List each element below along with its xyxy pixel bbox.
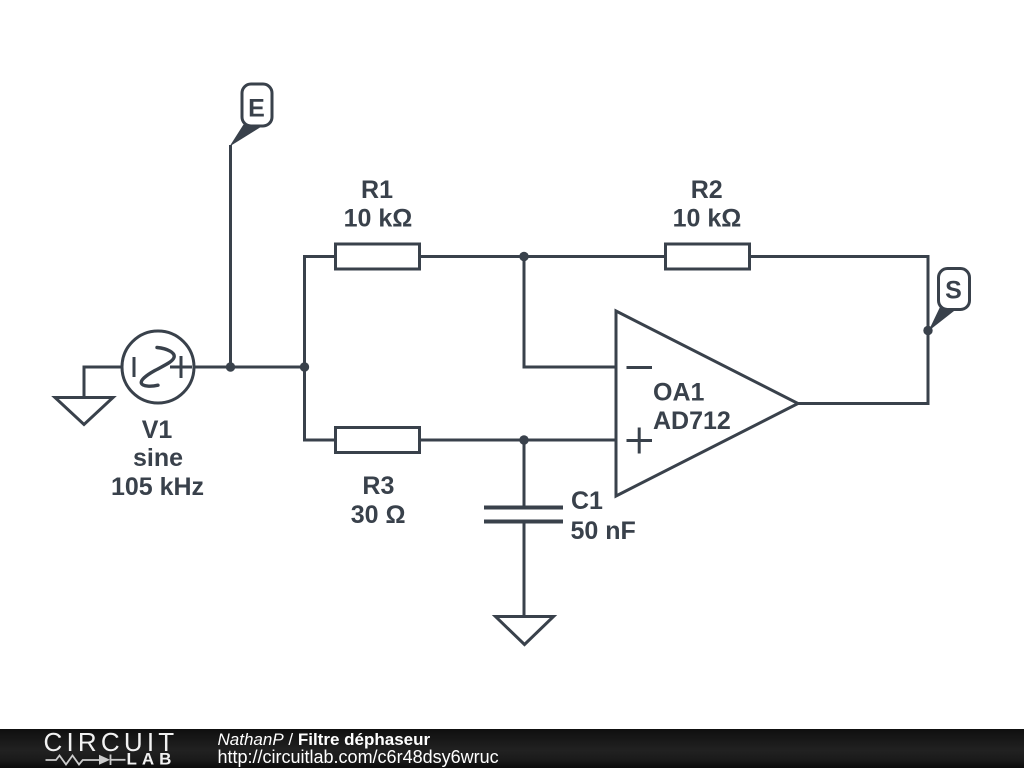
node junction C1 tap: [519, 435, 528, 444]
wire R3 to op-amp plus: [420, 439, 617, 442]
C1 label: [571, 487, 636, 545]
wire inverting vertical: [523, 257, 526, 368]
wire C1 bottom: [523, 523, 526, 615]
wire E to V1 output: [229, 147, 232, 368]
svg-text:R3: R3: [362, 472, 394, 500]
wire R1 right lead: [420, 255, 525, 258]
wire R3 left lead: [305, 439, 336, 442]
V1 label: [111, 416, 204, 501]
wire op-amp output: [798, 402, 928, 405]
node junction at input split: [300, 362, 309, 371]
svg-text:R2: R2: [691, 176, 723, 204]
voltage source V1: [122, 331, 194, 403]
node S flag: [929, 269, 970, 332]
svg-text:S: S: [945, 277, 962, 305]
resistor R1: [336, 244, 420, 269]
R2 label: [673, 176, 742, 232]
resistor R3: [336, 428, 420, 453]
resistor R2: [666, 244, 750, 269]
ground (C1): [496, 617, 554, 645]
node junction R1/R2/inverting: [519, 252, 528, 261]
svg-text:LAB: LAB: [127, 750, 177, 768]
op-amp plus input mark: [628, 429, 651, 452]
svg-text:R1: R1: [361, 176, 393, 204]
op-amp OA1 label: [653, 379, 731, 436]
svg-text:10 kΩ: 10 kΩ: [344, 204, 413, 232]
node junction S tap: [923, 326, 932, 335]
svg-text:http://circuitlab.com/c6r48dsy: http://circuitlab.com/c6r48dsy6wruc: [218, 747, 499, 767]
wire C1 top: [523, 440, 526, 506]
node junction at E tap: [226, 362, 235, 371]
wire vertical input split: [303, 257, 306, 441]
svg-text:50 nF: 50 nF: [571, 517, 636, 545]
wire V1 output: [194, 366, 305, 369]
svg-text:V1: V1: [142, 416, 173, 444]
wire feedback vertical: [927, 257, 930, 404]
wire R2 left lead: [524, 255, 666, 258]
op-amp minus input mark: [628, 366, 651, 369]
capacitor C1: [486, 508, 561, 522]
wire R2 right lead: [750, 255, 929, 258]
svg-text:105 kHz: 105 kHz: [111, 473, 204, 501]
svg-text:C1: C1: [571, 487, 603, 515]
R3 label: [351, 472, 406, 529]
footer bar: [0, 729, 1024, 768]
wire V1 to ground: [84, 367, 122, 396]
svg-text:AD712: AD712: [653, 407, 731, 435]
wire R1 left lead: [305, 255, 336, 258]
node E flag: [230, 84, 273, 147]
R1 label: [344, 176, 413, 232]
svg-text:30 Ω: 30 Ω: [351, 501, 406, 529]
svg-text:10 kΩ: 10 kΩ: [673, 204, 742, 232]
ground (V1): [55, 398, 113, 425]
wire inverting horizontal: [524, 366, 616, 369]
op-amp OA1 triangle: [616, 311, 798, 496]
svg-text:sine: sine: [133, 444, 183, 472]
svg-text:OA1: OA1: [653, 379, 705, 407]
svg-text:E: E: [248, 94, 265, 122]
CircuitLab logo resistor-diode glyph: [46, 755, 126, 766]
